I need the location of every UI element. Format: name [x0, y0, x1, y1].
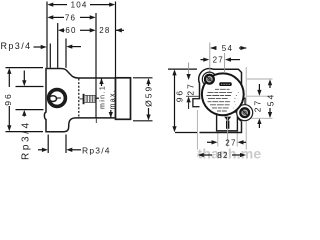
left port tab: [193, 99, 203, 107]
label pill: [219, 82, 231, 86]
Rp3/4 rotated dim (circle): [16, 71, 44, 117]
dim 96 left: [6, 68, 44, 132]
slot in circle: [49, 96, 56, 102]
housing square with boss corner arcs: [199, 68, 247, 132]
hidden dashed line: [78, 79, 80, 118]
svg-text:27: 27: [213, 55, 224, 64]
svg-text:96: 96: [3, 92, 13, 105]
svg-text:60: 60: [65, 26, 76, 35]
svg-text:thanh.me: thanh.me: [198, 146, 262, 162]
dim 76: [53, 16, 91, 18]
svg-text:28: 28: [99, 26, 110, 35]
dim 60: [63, 29, 91, 31]
svg-text:Rp3/4: Rp3/4: [20, 120, 31, 160]
svg-text:max.: max.: [109, 89, 116, 110]
inner wall line: [95, 78, 97, 117]
extension lines above: [47, 2, 116, 78]
sleeve rect: [116, 78, 131, 120]
dim 54 top of right view: [211, 47, 217, 49]
svg-text:104: 104: [71, 1, 88, 10]
big cover circle: [202, 73, 244, 115]
dim 27 left of right view: [188, 63, 190, 75]
gray extension lines: [197, 67, 272, 157]
dim Ø59: [133, 78, 153, 121]
boss rings: [202, 72, 216, 86]
svg-text:54: 54: [266, 93, 276, 106]
bottom port tab: [217, 112, 238, 131]
dim 27 bottom: [207, 141, 212, 143]
screw spindle: [83, 94, 85, 104]
screw bottom-right: [240, 108, 249, 117]
dim 96 right view: [168, 69, 197, 132]
dim 104: [53, 4, 111, 6]
dim 27 right of right view: [258, 84, 260, 91]
dim 27 top of right view: [209, 43, 211, 72]
svg-text:Rp3/4: Rp3/4: [82, 146, 111, 156]
svg-text:54: 54: [222, 44, 233, 53]
svg-text:82: 82: [217, 151, 228, 160]
svg-text:Ø59: Ø59: [144, 85, 154, 107]
svg-text:76: 76: [65, 13, 76, 22]
right leader of top socket: [71, 46, 82, 48]
valve marker in bottom tab: [224, 117, 231, 122]
right port tab: [238, 98, 245, 116]
svg-text:27: 27: [225, 138, 236, 147]
bottom Rp3/4 dim: [38, 135, 81, 154]
dim 54 right: [269, 83, 271, 89]
screw top-left: [205, 75, 214, 84]
svg-text:min.1: min.1: [100, 85, 107, 109]
body outline: [44, 69, 115, 132]
dim 82 bottom: [203, 154, 212, 156]
svg-text:27: 27: [185, 82, 195, 95]
port circle: [49, 90, 66, 107]
tiny label text lines: [207, 89, 240, 111]
svg-text:Rp3/4: Rp3/4: [1, 41, 32, 51]
svg-text:27: 27: [253, 99, 263, 112]
svg-text:96: 96: [174, 89, 184, 102]
